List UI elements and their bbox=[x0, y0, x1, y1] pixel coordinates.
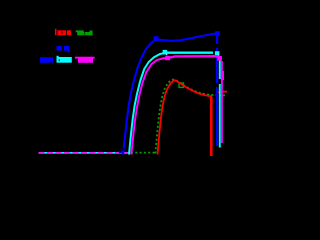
blend dot at cyan-magenta knee bbox=[166, 54, 167, 55]
marker blue end square bbox=[215, 31, 220, 36]
baseline magenta dashed bbox=[39, 152, 130, 154]
curve cyan plateau bbox=[166, 52, 213, 54]
red vertical drop bbox=[210, 97, 213, 156]
blue rise dash gap notch bbox=[121, 148, 124, 150]
marker magenta end square bbox=[217, 56, 222, 61]
red tail dash right of drops bbox=[223, 91, 227, 93]
marker green open square bbox=[179, 83, 183, 87]
magenta vertical drop dashed bbox=[221, 61, 223, 143]
marker cyan knee square bbox=[163, 50, 168, 55]
legend green label row1 bbox=[76, 30, 93, 35]
curve cyan rise bbox=[129, 53, 166, 155]
baseline cyan (solid under magenta dashes) bbox=[39, 152, 129, 154]
baseline blue dashes near rise bbox=[119, 151, 124, 153]
legend red label row1 bbox=[55, 29, 71, 35]
marker cyan end square bbox=[215, 51, 220, 56]
legend blue block row3 bbox=[40, 57, 53, 63]
legend cyan label row3 bbox=[57, 56, 72, 63]
red tail dot bbox=[218, 92, 220, 94]
baseline green dotted bbox=[131, 152, 156, 154]
blend dot at cyan end marker bbox=[218, 54, 219, 55]
curve blue rise bbox=[123, 39, 156, 154]
curve green dotted rise-peak-tail bbox=[155, 79, 224, 153]
marker magenta knee square bbox=[165, 56, 170, 60]
marker blue knee square bbox=[154, 36, 159, 41]
legend magenta label row3 bbox=[75, 57, 95, 63]
legend blue row2 label bbox=[57, 46, 70, 52]
magenta drop wide blob bbox=[221, 71, 224, 80]
blue vertical drop dashed bbox=[216, 36, 218, 146]
cyan vertical drop bbox=[219, 56, 221, 148]
curve red rise-peak-tail bbox=[158, 80, 213, 154]
green tail dash right of drops bbox=[223, 94, 225, 96]
curve magenta plateau bbox=[169, 56, 218, 58]
curve blue plateau bbox=[156, 34, 216, 41]
curve magenta rise bbox=[131, 58, 169, 155]
